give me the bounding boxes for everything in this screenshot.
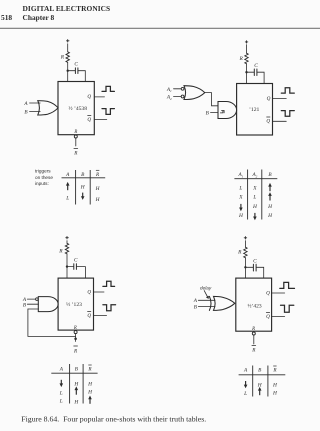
wire capacitor to box pin 2 bbox=[78, 71, 85, 82]
svg-text:R: R bbox=[58, 249, 63, 255]
svg-text:B: B bbox=[206, 110, 210, 116]
label R reset pin c4 bbox=[251, 327, 255, 332]
svg-text:A: A bbox=[193, 298, 198, 304]
svg-text:A1: A1 bbox=[166, 87, 172, 93]
label A1 input bbox=[166, 87, 172, 93]
wire node to capacitor C4 bbox=[245, 266, 253, 268]
svg-text:R: R bbox=[251, 327, 255, 332]
svg-text:H: H bbox=[252, 204, 258, 210]
svg-text:L: L bbox=[59, 390, 63, 396]
svg-text:B: B bbox=[75, 367, 79, 373]
wire reset c4 bbox=[253, 335, 255, 344]
label half 4538 bbox=[68, 105, 87, 112]
label half 423 bbox=[247, 302, 261, 309]
row1 down-arrow A t4 bbox=[245, 381, 247, 386]
wire Q output c3 bbox=[94, 291, 105, 293]
svg-text:C: C bbox=[74, 258, 78, 264]
wire supply to resistor R1 bbox=[67, 44, 69, 52]
or-gate G1 input bbox=[38, 101, 58, 115]
header Rbar t3 bbox=[87, 367, 92, 373]
waveform negative pulse c1 bbox=[102, 109, 114, 115]
svg-text:’121: ’121 bbox=[249, 107, 260, 113]
and-gate G3 schmitt bbox=[218, 102, 237, 119]
bubble A c3 bbox=[36, 298, 39, 301]
overbar of Qbar c3 bbox=[88, 311, 91, 313]
V+ supply symbol c2 bbox=[245, 41, 248, 43]
header B t4 bbox=[258, 368, 262, 374]
svg-text:L: L bbox=[238, 185, 242, 191]
svg-text:H: H bbox=[95, 197, 101, 203]
svg-text:B: B bbox=[194, 305, 198, 311]
wire resistor to node, into box pin c2 bbox=[246, 64, 248, 84]
V+ supply symbol c1 bbox=[67, 40, 70, 42]
IC box U1 half 4538 bbox=[58, 82, 94, 135]
svg-text:H: H bbox=[267, 213, 273, 219]
row1 H Rbar t3 bbox=[87, 382, 93, 388]
label A input c3 bbox=[22, 297, 27, 303]
label C of C4 bbox=[253, 258, 257, 264]
svg-text:A2: A2 bbox=[166, 95, 172, 101]
waveform positive pulse c4 bbox=[280, 282, 295, 288]
label R reset pin c1 bbox=[73, 130, 77, 135]
svg-text:R: R bbox=[95, 172, 100, 178]
svg-text:delay: delay bbox=[200, 285, 212, 290]
row1 H Rbar t1 bbox=[95, 186, 101, 192]
row4 H A1 t2 bbox=[238, 213, 244, 219]
label Rbar external c1 bbox=[74, 147, 78, 149]
svg-text:H: H bbox=[87, 382, 93, 388]
header underline t2 bbox=[234, 178, 277, 180]
wire capacitor to box pin c4 bbox=[257, 267, 264, 278]
capacitor C1 bbox=[75, 68, 78, 74]
bubble A2 bbox=[181, 95, 184, 98]
wire node to capacitor C3 bbox=[67, 266, 73, 268]
overbar of Qbar c1 bbox=[88, 115, 91, 117]
label Rbar external c3 bbox=[74, 345, 78, 347]
svg-text:Q: Q bbox=[267, 96, 271, 102]
row2 up-arrow B t2 bbox=[269, 195, 271, 201]
row1 H B t3 bbox=[73, 382, 79, 388]
wire B to gate c3 bbox=[27, 303, 38, 305]
waveform negative pulse c4 bbox=[281, 305, 294, 312]
label R of R4 bbox=[237, 250, 242, 256]
wire A1 to bubble bbox=[174, 88, 182, 90]
wire supply to resistor R4 bbox=[244, 241, 246, 248]
svg-text:Chapter 8: Chapter 8 bbox=[23, 13, 55, 22]
wire A to bubble c3 bbox=[27, 298, 35, 300]
waveform negative pulse c2 bbox=[281, 111, 294, 117]
reset bubble c4 bbox=[252, 332, 255, 335]
wire input A to G1 bbox=[30, 102, 41, 104]
header rule bbox=[0, 27, 320, 29]
header Rbar t1 bbox=[95, 172, 100, 178]
svg-text:Q: Q bbox=[266, 119, 270, 125]
row3 H t2 bbox=[252, 204, 258, 210]
bubble A1 bbox=[181, 87, 184, 90]
header A t3 bbox=[59, 367, 64, 373]
waveform negative pulse c3 bbox=[103, 305, 116, 311]
label Q output c3 bbox=[87, 290, 91, 296]
label B input c2 bbox=[206, 110, 210, 116]
row2 H Rbar t4 bbox=[272, 391, 278, 397]
overbar of Qbar c4 bbox=[266, 311, 269, 313]
row2 L A t3 bbox=[59, 390, 63, 396]
annotation triggers on these inputs bbox=[35, 169, 53, 186]
label Q output c2 bbox=[267, 96, 271, 102]
row2 down-arrow B t1 bbox=[82, 193, 84, 198]
svg-text:H: H bbox=[87, 390, 93, 396]
label A input c1 bbox=[23, 101, 28, 107]
header underline t3 bbox=[51, 372, 97, 374]
svg-text:L: L bbox=[252, 195, 256, 201]
waveform positive pulse c2 bbox=[281, 88, 294, 93]
label R of R1 bbox=[60, 55, 65, 61]
wire supply to resistor R2 bbox=[246, 45, 248, 54]
column line 1 t2 bbox=[247, 170, 249, 220]
row2 up-arrow B t4 bbox=[259, 389, 261, 395]
svg-text:X: X bbox=[252, 185, 257, 191]
svg-text:H: H bbox=[267, 204, 273, 210]
wire reset c1 bbox=[75, 138, 77, 146]
svg-text:inputs:: inputs: bbox=[35, 181, 49, 186]
svg-text:C: C bbox=[254, 63, 258, 69]
label C of C2 bbox=[254, 63, 258, 69]
column line 2 t2 bbox=[261, 170, 263, 220]
wire resistor to node, into box pin c4 bbox=[244, 258, 246, 278]
svg-text:Q: Q bbox=[87, 94, 91, 100]
wire node to capacitor C1 bbox=[68, 70, 75, 72]
capacitor C4 bbox=[253, 264, 256, 271]
label half 123 bbox=[66, 301, 82, 308]
label B input c4 bbox=[194, 305, 198, 311]
row1 X t2 bbox=[252, 185, 257, 191]
row2 L t2 bbox=[252, 195, 256, 201]
label Qbar output c3 bbox=[87, 313, 91, 319]
header A1 t2 bbox=[237, 172, 243, 178]
column line 2 t3 bbox=[82, 364, 84, 404]
row2 L A t4 bbox=[243, 391, 247, 397]
svg-text:Q: Q bbox=[87, 313, 91, 319]
svg-text:R: R bbox=[73, 151, 78, 157]
wire B into gate c4 bbox=[198, 306, 215, 308]
row1 L t2 bbox=[238, 185, 242, 191]
wire resistor to node, into box pin 1 bbox=[67, 62, 69, 81]
header A t4 bbox=[243, 368, 248, 374]
header Rbar t4 bbox=[272, 368, 277, 374]
label A2 input bbox=[166, 95, 172, 101]
svg-text:B: B bbox=[24, 109, 28, 115]
svg-text:Figure 8.64. Four popular one: Figure 8.64. Four popular one-shots with… bbox=[21, 415, 206, 424]
svg-text:on these: on these bbox=[35, 175, 53, 180]
svg-text:R: R bbox=[60, 55, 65, 61]
row2 L A t1 bbox=[65, 196, 69, 202]
waveform positive pulse c1 bbox=[102, 86, 114, 91]
row4 down-arrow A2 t2 bbox=[254, 213, 256, 218]
resistor R1 bbox=[66, 52, 69, 63]
wire feedback into gate third input bbox=[28, 308, 39, 310]
wire Qbar output c3 bbox=[94, 315, 107, 317]
wire Qbar output c4 bbox=[272, 316, 285, 318]
feedback wire from reset node bbox=[28, 309, 76, 336]
svg-text:R: R bbox=[73, 130, 77, 135]
svg-text:Q: Q bbox=[266, 314, 270, 320]
node reset feedback c3 bbox=[74, 337, 77, 340]
wire B to G3 bbox=[211, 112, 219, 114]
svg-text:L: L bbox=[243, 391, 247, 397]
or-gate G5 bbox=[214, 296, 235, 310]
label Q output c1 bbox=[87, 94, 91, 100]
header B t1 bbox=[81, 172, 85, 178]
wire Qbar output c2 bbox=[273, 120, 287, 122]
wire capacitor to box pin c3 bbox=[77, 267, 86, 279]
row1 up-arrow A t1 bbox=[67, 184, 69, 190]
svg-text:L: L bbox=[59, 399, 63, 405]
svg-text:A: A bbox=[65, 172, 70, 178]
wire reset c3 bbox=[75, 334, 77, 342]
row1 down-arrow A t3 bbox=[60, 380, 62, 385]
svg-text:H: H bbox=[80, 185, 86, 191]
row3 up-arrow Rbar t3 bbox=[89, 398, 91, 404]
svg-text:A: A bbox=[23, 101, 28, 107]
label C of C3 bbox=[74, 258, 78, 264]
IC box U2 121 bbox=[237, 84, 273, 136]
node junction RC c1 bbox=[67, 70, 69, 72]
header A t1 bbox=[65, 172, 70, 178]
header B t3 bbox=[75, 367, 79, 373]
header underline t4 bbox=[239, 374, 286, 376]
IC box U3 half 123 bbox=[58, 278, 93, 330]
svg-text:R: R bbox=[73, 349, 78, 355]
wire Qbar output c1 bbox=[94, 119, 107, 121]
svg-text:B: B bbox=[23, 302, 27, 308]
svg-text:½’423: ½’423 bbox=[247, 302, 261, 309]
row1 H Rbar t4 bbox=[272, 383, 278, 389]
column line 1 t1 bbox=[75, 170, 77, 205]
resistor R3 bbox=[65, 243, 68, 254]
svg-text:½ ’123: ½ ’123 bbox=[66, 301, 82, 308]
wire A2 to bubble bbox=[174, 96, 182, 98]
IC box U4 half 423 bbox=[236, 278, 272, 331]
node junction RC c4 bbox=[244, 266, 246, 268]
svg-text:DIGITAL ELECTRONICS: DIGITAL ELECTRONICS bbox=[23, 4, 111, 13]
row2 X t2 bbox=[238, 195, 243, 201]
svg-text:Q: Q bbox=[87, 290, 91, 296]
wire capacitor to box pin c2 bbox=[257, 72, 264, 83]
svg-text:L: L bbox=[65, 196, 69, 202]
wire resistor to node, into box pin c3 bbox=[66, 254, 68, 278]
schmitt hysteresis mark G3 bbox=[220, 111, 224, 113]
node junction RC c2 bbox=[245, 71, 247, 73]
svg-text:H: H bbox=[73, 399, 79, 405]
overbar of Qbar c2 bbox=[267, 116, 270, 118]
svg-text:H: H bbox=[272, 391, 278, 397]
delay leading curve G5 bbox=[209, 296, 211, 310]
row1 H B t4 bbox=[257, 383, 263, 389]
and-gate G4 bbox=[38, 297, 58, 312]
wire G2 output to G3 bbox=[205, 93, 218, 106]
wire Q output c1 bbox=[94, 96, 104, 98]
svg-text:triggers: triggers bbox=[35, 169, 51, 174]
label B input c3 bbox=[23, 302, 27, 308]
V+ supply symbol c3 bbox=[66, 237, 69, 239]
svg-text:Q: Q bbox=[266, 290, 270, 296]
svg-text:H: H bbox=[272, 383, 278, 389]
header A2 t2 bbox=[251, 172, 257, 178]
wire input B to G1 bbox=[30, 110, 41, 112]
label R of R2 bbox=[239, 56, 244, 62]
label delay annotation bbox=[200, 285, 212, 290]
svg-text:A2: A2 bbox=[251, 172, 257, 178]
label Qbar output c2 bbox=[266, 119, 270, 125]
svg-text:X: X bbox=[238, 195, 243, 201]
row3 H B t2 bbox=[267, 204, 273, 210]
column line 1 t4 bbox=[252, 366, 254, 397]
capacitor C3 bbox=[74, 264, 77, 270]
row3 down-arrow A1 t2 bbox=[240, 204, 242, 209]
wire A into gate c4 bbox=[198, 299, 215, 301]
row3 H B t3 bbox=[73, 399, 79, 405]
column line 1 t3 bbox=[69, 364, 71, 404]
wire supply to resistor R3 bbox=[66, 241, 68, 244]
label Qbar output c4 bbox=[266, 314, 270, 320]
svg-text:R: R bbox=[272, 368, 277, 374]
svg-text:B: B bbox=[268, 172, 272, 178]
column line 2 t4 bbox=[267, 366, 269, 397]
reset bubble c3 bbox=[74, 331, 77, 334]
svg-text:B: B bbox=[258, 368, 262, 374]
svg-text:B: B bbox=[81, 172, 85, 178]
row1 up-arrow B t2 bbox=[269, 185, 271, 191]
row2 H Rbar t1 bbox=[95, 197, 101, 203]
svg-text:A1: A1 bbox=[237, 172, 243, 178]
resistor R4 bbox=[244, 247, 247, 258]
arrow delay to gate curve bbox=[204, 291, 207, 297]
svg-text:R: R bbox=[239, 56, 244, 62]
svg-text:C: C bbox=[253, 258, 257, 264]
row2 H Rbar t3 bbox=[87, 390, 93, 396]
header underline t1 bbox=[62, 177, 106, 179]
label R of R3 bbox=[58, 249, 63, 255]
svg-text:Q: Q bbox=[87, 117, 91, 123]
header B t2 bbox=[268, 172, 272, 178]
row3 L A t3 bbox=[59, 399, 63, 405]
svg-text:H: H bbox=[238, 213, 244, 219]
label C of C1 bbox=[74, 62, 78, 68]
resistor R2 bbox=[245, 53, 248, 64]
svg-text:R: R bbox=[87, 367, 92, 373]
node junction RC c3 bbox=[66, 265, 68, 267]
label Rbar external c4 bbox=[252, 345, 256, 347]
reset bubble c1 bbox=[74, 135, 77, 138]
wire Q output c4 bbox=[272, 292, 285, 294]
label Qbar output c1 bbox=[87, 117, 91, 123]
svg-text:½ ’4538: ½ ’4538 bbox=[68, 105, 87, 112]
label 121 bbox=[249, 107, 260, 113]
label R reset pin c3 bbox=[73, 326, 77, 331]
column line 2 t1 bbox=[89, 170, 91, 205]
V+ supply symbol c4 bbox=[244, 237, 247, 239]
svg-text:518: 518 bbox=[1, 13, 12, 22]
svg-text:R: R bbox=[237, 250, 242, 256]
capacitor C2 bbox=[254, 69, 257, 76]
svg-text:C: C bbox=[74, 62, 78, 68]
svg-text:H: H bbox=[95, 186, 101, 192]
label Q output c4 bbox=[266, 290, 270, 296]
row4 H B t2 bbox=[267, 213, 273, 219]
negative-or gate G2 bbox=[184, 86, 205, 100]
row1 H B t1 bbox=[80, 185, 86, 191]
row2 up-arrow B t3 bbox=[75, 389, 77, 395]
waveform positive pulse c3 bbox=[103, 281, 115, 286]
label A input c4 bbox=[193, 298, 198, 304]
wire Q output c2 bbox=[273, 98, 287, 100]
svg-text:R: R bbox=[251, 347, 256, 353]
wire node to capacitor C2 bbox=[247, 71, 254, 73]
svg-text:A: A bbox=[243, 368, 248, 374]
label B input c1 bbox=[24, 109, 28, 115]
svg-text:A: A bbox=[59, 367, 64, 373]
